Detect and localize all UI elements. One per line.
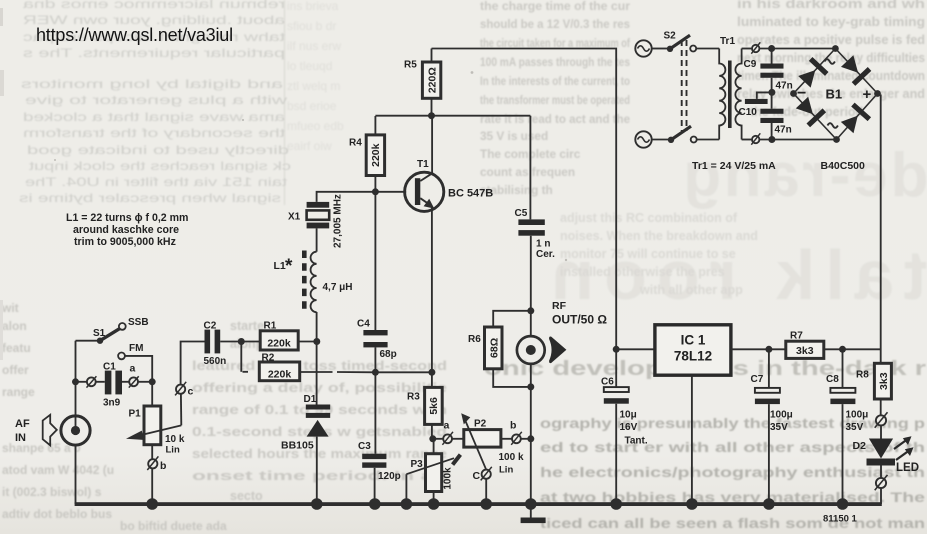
svg-text:eairf oiw: eairf oiw xyxy=(287,139,332,153)
svg-text:lo tleuqd: lo tleuqd xyxy=(287,59,332,73)
resistor R4 xyxy=(349,116,385,192)
svg-text:R7: R7 xyxy=(790,331,803,342)
capacitor C10 xyxy=(739,107,792,136)
svg-text:1 n: 1 n xyxy=(536,239,550,250)
wire IC1 ground pin xyxy=(691,375,693,504)
AC source top xyxy=(635,40,651,56)
svg-text:wide-rang: wide-rang xyxy=(680,141,927,210)
svg-text:ck signal reaches the clock in: ck signal reaches the clock input xyxy=(28,159,291,173)
terminal secondary bottom xyxy=(751,133,760,144)
wire top supply run xyxy=(432,49,617,388)
wire base drop to C4 xyxy=(374,192,376,330)
svg-text:a: a xyxy=(444,420,450,432)
wire P1 bottom xyxy=(151,445,153,504)
svg-text:B40C500: B40C500 xyxy=(821,160,866,172)
RF OUT connector J2 xyxy=(517,336,545,364)
svg-text:220k: 220k xyxy=(268,368,292,380)
svg-text:100 mA passes through the tes: 100 mA passes through the tes xyxy=(480,55,630,69)
svg-text:luminated to key-grab timing: luminated to key-grab timing xyxy=(737,15,925,29)
svg-text:Cer.: Cer. xyxy=(536,249,555,260)
svg-text:4,7 μH: 4,7 μH xyxy=(323,282,353,293)
svg-text:a: a xyxy=(130,363,136,375)
inductor L1 xyxy=(274,251,353,313)
wire R1 right xyxy=(298,341,317,343)
giant mirrored ghost headline (wide-range) xyxy=(541,141,927,314)
bridge rectifier B1 xyxy=(790,45,881,143)
potentiometer P1 xyxy=(129,406,185,456)
svg-text:IN: IN xyxy=(15,432,26,444)
svg-text:27,005 MHz: 27,005 MHz xyxy=(333,194,344,248)
svg-text:5k6: 5k6 xyxy=(428,397,440,415)
svg-text:C: C xyxy=(473,470,481,482)
svg-text:he electronics/photography ent: he electronics/photography enthusiast th xyxy=(540,464,925,480)
svg-text:bo biftid duete ada: bo biftid duete ada xyxy=(120,519,227,533)
svg-text:10μ: 10μ xyxy=(620,410,637,421)
node C1 left junction xyxy=(72,378,79,385)
svg-text:LED: LED xyxy=(896,462,919,474)
wire IC1 output run xyxy=(731,348,786,350)
svg-text:D2: D2 xyxy=(853,440,867,452)
svg-text:120p: 120p xyxy=(378,471,401,482)
P1 wiper arrow to c xyxy=(126,425,181,440)
svg-text:100μ: 100μ xyxy=(770,410,793,421)
diode upper-left xyxy=(796,57,828,89)
svg-text:In the interests of the curren: In the interests of the current, to xyxy=(480,74,630,88)
top-right faint text xyxy=(737,0,925,119)
svg-text:C4: C4 xyxy=(357,319,370,330)
wire emitter down xyxy=(431,208,433,388)
svg-text:mfueo edb: mfueo edb xyxy=(287,119,344,133)
diode lower-left xyxy=(794,95,826,127)
RF OUT label xyxy=(552,300,607,327)
svg-text:220k: 220k xyxy=(267,337,291,349)
svg-text:IC 1: IC 1 xyxy=(681,333,706,348)
svg-text:rate it is read to act and the: rate it is read to act and the xyxy=(480,112,630,126)
svg-text:ins brieva: ins brieva xyxy=(287,0,339,13)
wire node to P1 xyxy=(151,382,153,406)
svg-text:alon: alon xyxy=(2,319,27,333)
terminal a (right) xyxy=(442,420,453,445)
capacitor C5 xyxy=(515,208,556,260)
bottom-left ghost lines xyxy=(1,301,227,533)
diode upper-right xyxy=(839,54,871,86)
svg-text:monitor 75 will continue to se: monitor 75 will continue to se xyxy=(560,247,736,261)
svg-text:X1: X1 xyxy=(288,212,301,223)
svg-text:ed to start er with all other: ed to start er with all other aspects of… xyxy=(540,439,925,455)
node R3 bottom junction xyxy=(429,435,436,442)
svg-text:bsd erioe: bsd erioe xyxy=(287,99,337,113)
svg-text:the charge time of the cur: the charge time of the cur xyxy=(480,0,630,13)
wire C1 row left xyxy=(76,381,88,383)
svg-text:Lin: Lin xyxy=(499,465,513,476)
svg-text:R1: R1 xyxy=(264,321,277,332)
resistor R7 xyxy=(786,331,824,359)
svg-text:S2: S2 xyxy=(664,31,677,42)
L1 winding note xyxy=(66,212,188,248)
wire collector rail xyxy=(375,115,530,117)
wire secondary top xyxy=(742,48,752,50)
svg-text:R4: R4 xyxy=(349,138,362,149)
URL caption xyxy=(36,25,233,45)
svg-text:R8: R8 xyxy=(856,370,869,381)
node emitter junction xyxy=(428,369,435,376)
svg-text:RF: RF xyxy=(552,300,567,312)
potentiometer P2 xyxy=(464,419,524,476)
op-amp IC1 78L12 xyxy=(655,325,731,375)
wire a to P1 node xyxy=(138,381,152,383)
svg-text:C5: C5 xyxy=(515,208,528,219)
wire C8 to rail xyxy=(842,404,844,504)
wire C1 right xyxy=(122,381,129,383)
svg-text:100 k: 100 k xyxy=(499,452,524,463)
resistor R5 xyxy=(404,49,441,116)
wire c to P1 wiper elbow xyxy=(180,394,182,426)
svg-text:P2: P2 xyxy=(474,419,487,430)
svg-text:R5: R5 xyxy=(404,60,417,71)
svg-text:offer: offer xyxy=(2,363,29,377)
svg-text:tain 151 via the filter in U04: tain 151 via the filter in U04. The xyxy=(25,175,287,189)
capacitor C3 xyxy=(358,441,401,482)
svg-text:Tr1: Tr1 xyxy=(720,36,735,47)
svg-text:D1: D1 xyxy=(304,394,317,405)
capacitor C6 xyxy=(601,377,648,447)
wire C2 right to R node xyxy=(220,341,260,343)
svg-text:c: c xyxy=(188,386,194,398)
svg-text:adtiv dot beblo bus: adtiv dot beblo bus xyxy=(2,507,112,521)
ghost headline (developments in the dark room) xyxy=(484,357,926,380)
capacitor C1 xyxy=(103,362,122,409)
wire C3 to rail xyxy=(374,468,376,504)
node P2b junction xyxy=(527,435,534,442)
svg-text:Lin: Lin xyxy=(166,445,180,456)
svg-text:adjust this RC combination of: adjust this RC combination of xyxy=(560,211,738,225)
svg-text:C8: C8 xyxy=(826,374,839,385)
wire c to rail xyxy=(485,479,487,504)
svg-text:should be a 12 V/0.3 the res: should be a 12 V/0.3 the res xyxy=(480,17,630,31)
svg-text:atod vam W 4042 (u: atod vam W 4042 (u xyxy=(2,463,114,477)
terminal below D2 xyxy=(875,475,888,490)
svg-text:R3: R3 xyxy=(407,392,420,403)
svg-text:35V: 35V xyxy=(846,422,864,433)
svg-text:Tant.: Tant. xyxy=(625,436,648,447)
ac tildes xyxy=(825,59,835,64)
wire L1 bottom to D1 xyxy=(316,312,318,405)
rail junction dots xyxy=(146,498,848,510)
svg-text:Tr1 = 24 V/25 mA: Tr1 = 24 V/25 mA xyxy=(692,160,776,172)
node RF bottom junction xyxy=(527,383,534,390)
resistor R2 xyxy=(259,353,299,381)
node base junction xyxy=(372,188,379,195)
wire D1 to rail xyxy=(316,437,318,504)
svg-text:directly used to indicate good: directly used to indicate good xyxy=(27,143,289,157)
svg-text:R2: R2 xyxy=(262,353,275,364)
P2 wiper arrow xyxy=(461,413,486,470)
terminal c (right) xyxy=(473,467,492,482)
power labels xyxy=(692,160,865,172)
svg-text:−: − xyxy=(797,85,806,102)
node C7 junction xyxy=(765,346,772,353)
svg-text:100k: 100k xyxy=(443,467,454,490)
wire LED to rail corner xyxy=(880,488,882,505)
svg-text:C2: C2 xyxy=(204,320,217,331)
svg-text:particular requirements. The s: particular requirements. The s xyxy=(23,46,285,60)
svg-text:b: b xyxy=(510,420,516,432)
svg-text:35V: 35V xyxy=(770,422,788,433)
svg-text:around kaschke core: around kaschke core xyxy=(73,224,179,236)
svg-text:leatured filter, toss timed-se: leatured filter, toss timed-second xyxy=(192,359,447,373)
crystal X1 xyxy=(288,194,344,248)
svg-text:ilf nus erw: ilf nus erw xyxy=(287,39,341,53)
node C4-C3 junction xyxy=(372,369,379,376)
svg-text:3k3: 3k3 xyxy=(878,372,890,390)
svg-text:rebmun laicremmoc emos dna: rebmun laicremmoc emos dna xyxy=(22,0,285,11)
AF IN connector J1 xyxy=(61,416,90,445)
switch S2 pole 1 xyxy=(652,31,720,53)
switch S1 xyxy=(76,323,126,344)
svg-text:3n9: 3n9 xyxy=(103,398,121,409)
resistor R6 xyxy=(468,311,531,387)
capacitor C8 xyxy=(826,349,868,433)
resistor R3 xyxy=(407,387,442,438)
svg-text:in his darkroom and wh: in his darkroom and wh xyxy=(737,0,925,11)
AF IN label xyxy=(15,418,30,444)
AF input arrow xyxy=(43,415,57,446)
board number xyxy=(823,514,858,525)
node C8 junction xyxy=(839,346,846,353)
svg-text:FM: FM xyxy=(129,343,143,354)
svg-text:it (002.3 biswol) s: it (002.3 biswol) s xyxy=(2,485,102,499)
svg-text:range: range xyxy=(2,385,35,399)
ground symbol xyxy=(521,504,546,523)
svg-text:P1: P1 xyxy=(129,409,142,420)
wire bottom AC run xyxy=(742,139,837,141)
node RF top junction xyxy=(527,307,534,314)
wire a to P2 xyxy=(452,438,464,440)
resistor R8 xyxy=(856,363,891,415)
wire P2 right to RF line xyxy=(501,438,531,440)
node R1 left junction xyxy=(238,338,245,345)
mirrored top-left ghost column xyxy=(19,0,291,205)
wire R2 drop xyxy=(241,342,248,372)
node R1 right junction xyxy=(313,338,320,345)
svg-text:L1 = 22 turns ϕ f 0,2 mm: L1 = 22 turns ϕ f 0,2 mm xyxy=(66,212,188,224)
switch S2 link xyxy=(682,40,687,131)
svg-text:R6: R6 xyxy=(468,334,481,345)
svg-text:+: + xyxy=(863,86,872,103)
svg-text:selected hours the maximum ran: selected hours the maximum range xyxy=(192,447,447,461)
wire C4 to C3 xyxy=(374,347,376,453)
svg-text:BB105: BB105 xyxy=(281,440,314,452)
svg-text:signal when prescaler bytime i: signal when prescaler bytime is xyxy=(19,191,281,205)
terminal a (left) xyxy=(129,363,139,388)
transistor T1 xyxy=(405,116,494,212)
svg-text:secto: secto xyxy=(230,489,263,503)
wire C6 to rail xyxy=(615,404,617,504)
wire C5 to RF node xyxy=(530,236,532,336)
wire AF jack vertical xyxy=(75,341,77,504)
svg-text:with all other app: with all other app xyxy=(639,283,743,297)
svg-text:C1: C1 xyxy=(103,362,116,373)
terminal circle left of C1 xyxy=(87,376,97,387)
wire C10 to bottom run xyxy=(771,123,773,140)
wire FM to P1 top node xyxy=(125,356,152,382)
node C9 top junction xyxy=(768,45,775,52)
svg-text:count as frequen: count as frequen xyxy=(480,165,575,179)
wire C2 left down to c xyxy=(181,342,205,385)
svg-text:S1: S1 xyxy=(93,328,106,339)
svg-text:C9: C9 xyxy=(744,59,757,70)
capacitor C7 xyxy=(751,349,793,433)
svg-text:16V: 16V xyxy=(620,422,638,433)
bottom-middle ghost lines xyxy=(192,319,447,503)
wire C7 to rail xyxy=(768,404,770,504)
terminal c (left) xyxy=(175,382,193,398)
svg-text:ticed can all be seen a flash: ticed can all be seen a flash som de not… xyxy=(540,515,925,531)
svg-text:ztl welq m: ztl welq m xyxy=(287,79,340,93)
wire C9 to mid node xyxy=(771,78,773,109)
node FM terminal xyxy=(118,343,143,359)
svg-text:47n: 47n xyxy=(776,81,793,92)
svg-text:trim to 9005,000 kHz: trim to 9005,000 kHz xyxy=(74,236,176,248)
svg-text:SSB: SSB xyxy=(128,317,149,328)
bottom-right readable ghost paragraph xyxy=(540,415,925,531)
svg-text:10 k: 10 k xyxy=(165,434,185,445)
svg-text:BC 547B: BC 547B xyxy=(448,188,493,200)
switch S2 pole 2 xyxy=(652,126,720,143)
svg-text:B1: B1 xyxy=(826,87,843,102)
svg-text:68p: 68p xyxy=(380,349,397,360)
potentiometer P3 xyxy=(411,439,454,504)
wire R3 node to a xyxy=(433,438,443,440)
svg-text:C7: C7 xyxy=(751,374,764,385)
svg-text:featu: featu xyxy=(2,341,31,355)
varicap D1 xyxy=(281,394,330,452)
svg-text:the secondary of the transform: the secondary of the transform xyxy=(23,126,285,140)
AC source bottom xyxy=(635,131,651,147)
capacitor C9 xyxy=(744,49,793,92)
wire to C1 xyxy=(96,381,105,383)
svg-text:https://www.qsl.net/va3iul: https://www.qsl.net/va3iul xyxy=(36,25,233,45)
svg-text:C6: C6 xyxy=(601,377,614,388)
svg-text:wit: wit xyxy=(1,301,19,315)
bottom ground rail xyxy=(75,502,882,506)
svg-text:100μ: 100μ xyxy=(846,410,869,421)
svg-text:operates a positive pulse is f: operates a positive pulse is fed xyxy=(737,33,925,47)
RF out arrow xyxy=(549,336,566,363)
faint column rule xyxy=(284,0,286,205)
LED D2 xyxy=(853,426,920,479)
node P1 top junction xyxy=(149,378,156,385)
svg-text:C10: C10 xyxy=(739,107,758,118)
svg-text:220Ω: 220Ω xyxy=(426,67,438,93)
wire RF line lower xyxy=(530,364,532,504)
capacitor C2 xyxy=(204,320,227,367)
svg-text:b: b xyxy=(160,460,166,472)
svg-text:47n: 47n xyxy=(775,125,792,136)
terminal secondary top xyxy=(751,42,760,53)
svg-text:560n: 560n xyxy=(204,356,227,367)
wire R7 right run xyxy=(824,348,881,350)
wire X1 to L1 xyxy=(316,228,318,251)
svg-text:OUT/50 Ω: OUT/50 Ω xyxy=(552,313,607,327)
svg-text:81150 1: 81150 1 xyxy=(823,514,858,525)
resistor R1 xyxy=(260,321,298,351)
svg-text:T1: T1 xyxy=(417,159,429,170)
capacitor C4 xyxy=(357,319,397,361)
svg-text:with a plus generator to give: with a plus generator to give xyxy=(24,93,288,107)
svg-text:noises. When the breakdown and: noises. When the breakdown and xyxy=(560,229,758,243)
diode lower-right xyxy=(839,103,871,135)
wire IC1 input xyxy=(616,348,655,350)
node bottom AC junction xyxy=(768,136,775,143)
svg-text:onset time period. In ad: onset time period. In ad xyxy=(192,469,447,483)
node SSB xyxy=(128,317,149,328)
wire B1 plus drop xyxy=(880,95,882,364)
svg-text:ama wave signal that a clocked: ama wave signal that a clocked xyxy=(23,110,285,124)
svg-text:sfiou b dr: sfiou b dr xyxy=(287,19,336,33)
transformer Tr1 xyxy=(719,36,741,140)
wire C5 feed xyxy=(529,116,531,220)
ghost text behind R5 area xyxy=(480,0,630,197)
svg-text:the transformer must be operat: the transformer must be operated xyxy=(480,93,630,107)
terminal b (left) xyxy=(147,456,166,472)
svg-text:35 V is used: 35 V is used xyxy=(480,129,548,143)
node R5 bottom junction xyxy=(428,112,435,119)
centre tap bar xyxy=(745,92,772,104)
wire emitter to C4C3 node xyxy=(375,371,432,373)
svg-text:and digital by long monitors: and digital by long monitors xyxy=(21,77,283,91)
top-middle faint column xyxy=(287,0,344,153)
terminal above D2 xyxy=(875,412,888,427)
wire X1 top to base xyxy=(317,192,407,202)
node C9-C10 junction xyxy=(768,89,775,96)
mid-right faint paragraph xyxy=(560,211,758,297)
svg-text:AF: AF xyxy=(15,418,30,430)
wire top AC run xyxy=(759,48,835,50)
svg-text:220k: 220k xyxy=(370,143,382,167)
wire R2 right dashed xyxy=(300,371,376,373)
P3 wiper trimmer xyxy=(406,455,460,504)
terminal b (right) xyxy=(510,420,522,445)
svg-text:C3: C3 xyxy=(358,441,371,452)
svg-text:68Ω: 68Ω xyxy=(488,338,500,358)
svg-text:*: * xyxy=(285,256,293,277)
node IC1 input junction xyxy=(613,346,620,353)
svg-text:installed otherwise the pres: installed otherwise the pres xyxy=(560,265,725,279)
svg-text:78L12: 78L12 xyxy=(674,349,712,364)
svg-text:3k3: 3k3 xyxy=(796,345,814,357)
